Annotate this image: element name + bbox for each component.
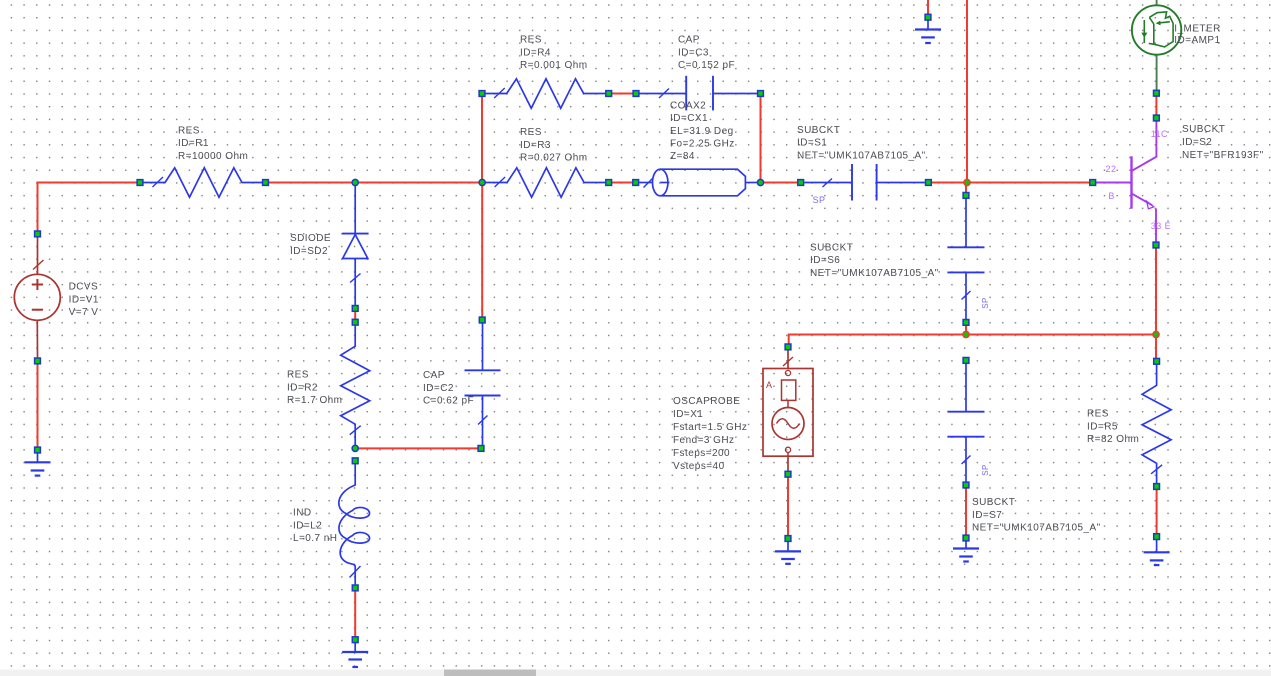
subckt S1 capacitor: [804, 182, 852, 184]
svg-text:I_METERID=AMP1: I_METERID=AMP1: [1174, 23, 1221, 46]
wire meter to collector: [1155, 93, 1157, 118]
svg-text:11C: 11C: [1151, 129, 1168, 139]
wire top supply into node column: [966, 0, 968, 183]
wire R4 to C3 top branch: [609, 93, 636, 95]
subckt S7 capacitor: [965, 364, 967, 412]
resistor R4: [485, 79, 605, 108]
capacitor C3: [640, 93, 687, 95]
resistor R2: [341, 326, 370, 445]
wire R5 to ground: [1156, 487, 1158, 537]
svg-text:DCVSID=V1V=7 V: DCVSID=V1V=7 V: [69, 282, 99, 318]
wire vertical branch right of C3: [760, 94, 762, 183]
capacitor C2: [482, 323, 484, 370]
terminals: [35, 231, 41, 237]
transistor Q1 BFR193 subckt S2: [1093, 182, 1132, 184]
ground under OSCAPROBE: [787, 541, 789, 551]
ground left under DCVS: [37, 453, 39, 462]
current meter AMP1: [1156, 0, 1158, 5]
wire main horizontal net left + DCVS drop: [38, 183, 141, 234]
wire R2 junction to C2 bottom: [355, 447, 481, 449]
svg-text:33 E: 33 E: [1151, 221, 1171, 231]
wire junction down to C2 top terminal: [481, 183, 483, 321]
wire L2 to ground: [354, 588, 356, 640]
ground under L2: [354, 643, 356, 652]
DCVS source V1: [37, 237, 39, 274]
wire R1 to SDIODE junction: [266, 182, 356, 184]
wire S6 bottom to mid rail: [965, 322, 967, 334]
wire COAX junction to SUBCKT S1: [761, 182, 801, 184]
diode SD2: [354, 183, 356, 234]
svg-text:SP: SP: [813, 195, 826, 205]
subckt S6 capacitor: [965, 199, 967, 247]
svg-text:B: B: [1108, 191, 1114, 201]
svg-text:A: A: [766, 380, 772, 390]
wire OSCAPROBE to ground: [787, 474, 789, 538]
resistor R1: [144, 168, 263, 197]
resistor R3: [486, 168, 606, 197]
oscaprobe X1: [787, 350, 789, 369]
wire S1 to node junction: [928, 182, 967, 184]
svg-text:22: 22: [1106, 164, 1117, 174]
inductor L2: [339, 464, 370, 585]
wire SDIODE to R2 link: [354, 308, 356, 322]
node junctions: [352, 179, 358, 185]
wire emitter down to mid rail and R5: [1155, 245, 1157, 361]
wire junction to transistor base: [967, 182, 1093, 184]
svg-text:SP: SP: [981, 464, 990, 476]
ground under S7: [965, 541, 967, 549]
wire vertical branch left of R4: [481, 94, 483, 183]
ground under R5: [1156, 540, 1158, 553]
wire top ground stub: [927, 0, 929, 17]
ground top: [927, 20, 929, 29]
coax line CX1: [639, 182, 652, 184]
wire S7 to ground: [965, 485, 967, 538]
wire R3 to COAX: [609, 182, 636, 184]
svg-text:SDIODEID=SD2: SDIODEID=SD2: [290, 233, 331, 257]
resistor R5: [1142, 365, 1171, 483]
wire node to SUBCKT S6 top: [965, 183, 967, 196]
wire DCVS to ground: [37, 361, 39, 450]
svg-text:SP: SP: [981, 297, 990, 309]
horizontal scrollbar: [0, 670, 1271, 676]
wire SDIODE junction to R3 junction: [355, 182, 482, 184]
wire mid horizontal rail with OSCAPROBE drop: [789, 335, 1156, 347]
